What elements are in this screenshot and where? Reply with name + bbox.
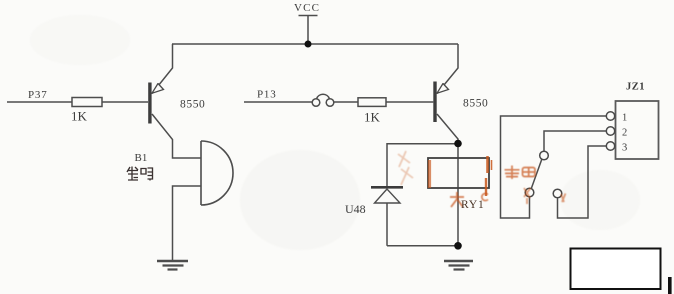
svg-text:P37: P37	[28, 89, 48, 101]
svg-text:3: 3	[622, 143, 627, 154]
svg-text:RY1: RY1	[461, 199, 485, 211]
svg-text:2: 2	[622, 128, 627, 139]
svg-text:1K: 1K	[364, 110, 381, 125]
svg-text:P13: P13	[257, 89, 277, 101]
svg-text:JZ1: JZ1	[626, 82, 645, 93]
svg-text:B1: B1	[135, 152, 148, 164]
svg-text:8550: 8550	[180, 99, 205, 111]
svg-text:8550: 8550	[463, 98, 488, 110]
svg-text:VCC: VCC	[294, 2, 320, 14]
svg-text:U48: U48	[345, 202, 366, 216]
svg-text:1: 1	[622, 113, 627, 124]
svg-text:1K: 1K	[71, 109, 88, 124]
